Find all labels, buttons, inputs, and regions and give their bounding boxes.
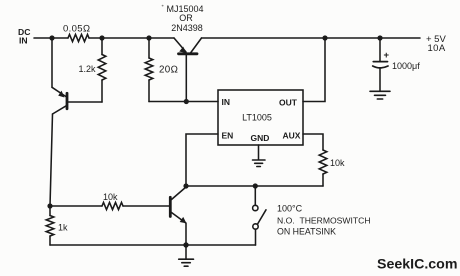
transistor Q1 (PNP current limit) [50,38,102,206]
switch S1 thermoswitch [253,186,266,245]
junction node thermoswitch tap [253,183,258,188]
ground below C1 [370,91,390,99]
svg-text:+: + [384,50,390,61]
svg-text:IN: IN [19,36,28,46]
svg-text:1000μf: 1000μf [392,61,420,71]
wire Q2 collector to +5V (top rail right segment) [202,37,421,39]
resistor R2 1.2k [101,38,103,55]
svg-text:10k: 10k [330,158,345,168]
svg-text:0.05Ω: 0.05Ω [63,24,91,35]
svg-text:AUX: AUX [283,131,301,141]
resistor R4 1k [49,206,51,216]
svg-text:SeekIC.com: SeekIC.com [377,257,457,273]
transistor Q2 MJ15004 / 2N4398 (PNP pass) [174,38,202,102]
resistor R5 10k [102,202,123,209]
label 100 C N.O. THERMOSWITCH ON HEATSINK [277,204,371,237]
wire DC IN to resistor R1 [34,37,68,39]
ground below Q3 emitter [179,245,194,266]
junction node C1 / rail [377,35,382,40]
wire bottom rail [50,244,256,246]
svg-text:100°C: 100°C [277,204,303,214]
junction node OUT riser / rail [322,35,327,40]
junction node input rail / Q1 emitter [49,35,54,40]
capacitor C1 1000uF [373,38,388,91]
wire junction to R5 10k [50,205,102,207]
wire AUX pin to R6 [303,134,323,150]
svg-text:IN: IN [222,97,231,107]
wire EN pin to Q3 collector node [186,134,218,186]
wire OUT pin to rail [303,38,325,102]
wire R5 to Q3 base [123,205,169,207]
junction node R4 / R5 / Q1 collector [47,203,52,208]
svg-text:1.2k: 1.2k [79,64,97,74]
svg-text:10A: 10A [428,43,446,54]
svg-text:10k: 10k [103,192,118,202]
svg-text:2N4398: 2N4398 [171,23,203,33]
svg-text:EN: EN [222,131,234,141]
wire 20 ohm to IN pin [149,101,218,103]
junction node Q2 base / IN wire [184,99,189,104]
junction node Q3 emitter / ground [183,242,188,247]
resistor R3 20 ohm [148,38,150,58]
svg-text:20Ω: 20Ω [159,65,178,76]
wire EN node to R6 bottom [186,185,323,187]
svg-text:1k: 1k [58,223,68,233]
node +5V 10A label [426,34,446,54]
junction node rail / R3 20 ohm [146,35,151,40]
label MJ15004 OR 2N4398 [166,4,203,33]
svg-text:ON HEATSINK: ON HEATSINK [277,227,336,237]
transistor Q3 (NPN) [170,187,186,245]
svg-text:LT1005: LT1005 [242,113,272,123]
svg-text:N.O. THERMOSWITCH: N.O. THERMOSWITCH [277,216,371,226]
speck before MJ15004 [162,5,164,7]
resistor R1 0.05 ohm [68,34,89,41]
svg-text:GND: GND [251,133,270,143]
resistor R6 10k [319,150,327,174]
node DC IN label [18,27,30,46]
op-amp U1 LT1005 regulator box [218,90,303,145]
ground below GND pin [253,145,266,167]
svg-text:OUT: OUT [279,98,298,108]
svg-text:OR: OR [179,13,193,23]
junction node R1 / R2 1.2k [99,35,104,40]
wire R1 to Q2 emitter (top rail left segment) [89,37,174,39]
junction node EN / Q3 collector [183,183,188,188]
